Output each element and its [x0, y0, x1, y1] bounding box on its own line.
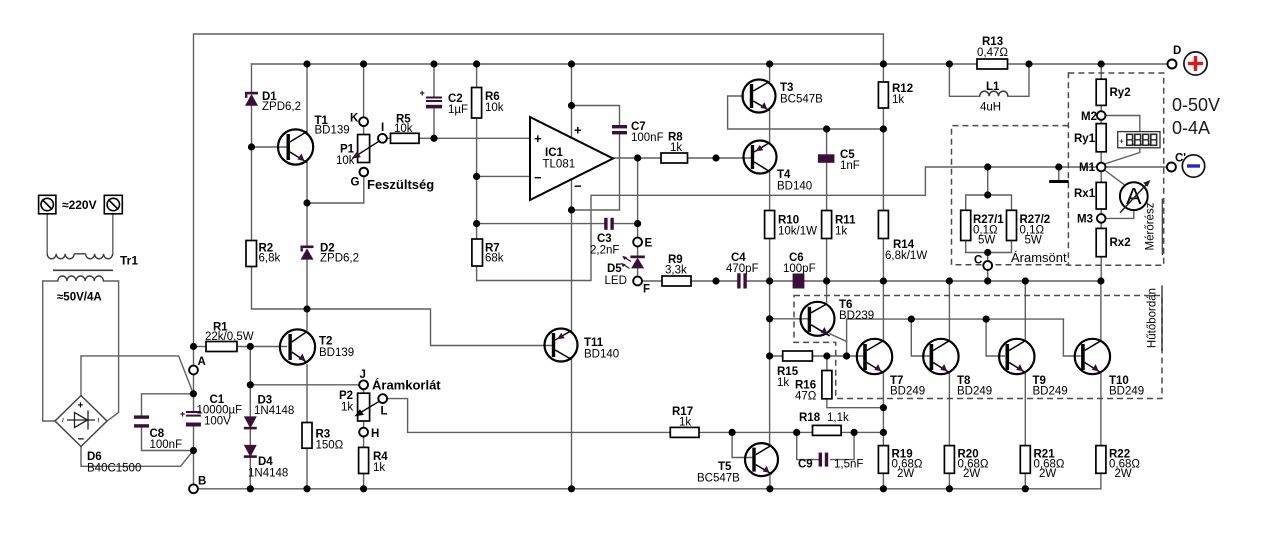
svg-text:T4: T4 [777, 169, 791, 181]
svg-text:L1: L1 [986, 81, 1000, 93]
svg-text:470pF: 470pF [726, 263, 759, 275]
svg-text:+: + [420, 88, 425, 98]
junction at 476.6,64 [473, 60, 480, 67]
dashed box Meroresz metering [1068, 73, 1163, 265]
capacitor C9 [819, 453, 829, 467]
wire shunt bottom to C terminal [966, 241, 1012, 262]
svg-text:T11: T11 [584, 337, 604, 349]
svg-text:C3: C3 [597, 233, 612, 245]
transistor T8 [923, 339, 958, 374]
svg-text:ZPD6,2: ZPD6,2 [262, 101, 301, 113]
wire T2 collector net to T11 base [307, 309, 553, 346]
svg-text:−: − [534, 170, 542, 185]
terminal J [359, 380, 368, 389]
svg-text:≈220V: ≈220V [62, 198, 97, 212]
wire M2 to display [1106, 116, 1140, 132]
svg-text:Áramkorlát: Áramkorlát [372, 378, 441, 393]
wire secondary right lead to bridge [103, 281, 118, 421]
zener diode D1 [245, 92, 258, 106]
bridge D6 internal diode symbol [67, 411, 95, 430]
svg-text:TL081: TL081 [543, 159, 576, 171]
svg-text:A: A [1126, 183, 1142, 209]
wire T8 base drop [911, 319, 929, 356]
wire op-amp -input [477, 175, 530, 177]
capacitor C5 [818, 154, 835, 163]
svg-text:1k: 1k [835, 226, 847, 238]
wire T5 base drop [732, 432, 753, 457]
wire T8 emitter [948, 373, 950, 446]
svg-text:+: + [180, 409, 185, 419]
wire T4 collector to R10 [769, 171, 771, 211]
wire T9 collector [1024, 281, 1026, 340]
wire left screw terminal to primary [46, 214, 48, 254]
svg-text:1µF: 1µF [448, 104, 468, 116]
svg-text:R18: R18 [799, 412, 821, 424]
wire T1 collector [306, 64, 308, 132]
diode D4 [244, 445, 257, 458]
svg-text:Tr1: Tr1 [120, 254, 138, 268]
resistor R7 [472, 239, 483, 266]
capacitor C3 [604, 218, 614, 230]
transistor T9 [999, 339, 1034, 374]
wire op-amp output to R8 [613, 157, 661, 159]
wire R11 bottom [826, 239, 828, 282]
resistor R8 [661, 153, 688, 163]
wire T1 emitter to D2 and P1-G [307, 162, 364, 246]
wire R22 bottom [1100, 473, 1102, 489]
wire secondary left lead to bridge [43, 281, 58, 421]
junction at 193.4,450.5 [190, 447, 197, 454]
svg-text:Rx1: Rx1 [1074, 188, 1096, 200]
wire output branch down to C3 and E [637, 158, 639, 238]
svg-text:BC547B: BC547B [697, 473, 740, 485]
resistor Ry1 [1096, 124, 1106, 152]
wire node A column capacitor section [193, 374, 195, 484]
resistor R2 [246, 241, 257, 267]
junction at 854.1,432.4 [851, 429, 858, 436]
wire R10 bottom [769, 239, 771, 282]
transformer Tr1 primary winding [47, 254, 112, 259]
wire C2 column [433, 64, 435, 138]
op-amp IC1 [530, 117, 613, 200]
terminal E [633, 238, 642, 247]
svg-text:10k: 10k [336, 155, 355, 167]
junction at 637.6,158 [634, 154, 641, 161]
svg-text:6,8k/1W: 6,8k/1W [885, 250, 927, 262]
wire P1 top K to rail [363, 64, 365, 117]
zener diode D2 [301, 246, 314, 260]
svg-text:4uH: 4uH [980, 102, 1001, 114]
resistor R16 [822, 371, 832, 399]
junction at 571.5,488.8 [568, 485, 575, 492]
wire Ry2 to M2 [1100, 105, 1102, 111]
junction at 250.3,384.8 [247, 381, 254, 388]
wire T5 collector [769, 445, 771, 446]
wire top feed from node A column to main rail [194, 34, 884, 347]
junction at 769.6,356 [766, 352, 773, 359]
bridge rectifier D6 diamond [55, 396, 107, 447]
wire M1 to ammeter diagonal [1105, 170, 1127, 186]
svg-text:+: + [534, 131, 542, 146]
wire right screw terminal to primary [112, 214, 114, 254]
wire R20 bottom [948, 473, 950, 489]
junction at 796.7,432.4 [793, 429, 800, 436]
svg-text:1k: 1k [341, 402, 353, 414]
wire Rx2 bottom to collector line [1100, 257, 1102, 281]
wire M3 to ammeter [1106, 210, 1134, 219]
terminal H [359, 428, 368, 437]
svg-text:BD249: BD249 [957, 386, 992, 398]
svg-text:68k: 68k [485, 253, 504, 265]
svg-text:1nF: 1nF [840, 160, 860, 172]
svg-text:Ry2: Ry2 [1110, 87, 1131, 99]
inductor L1 [980, 91, 1008, 96]
svg-text:10k: 10k [394, 123, 413, 135]
dashed box Aramsont shunt [952, 126, 1069, 265]
svg-text:+: + [574, 123, 582, 138]
junction at 769.6,318.8 [766, 315, 773, 322]
svg-text:Mérőrész: Mérőrész [1145, 202, 1157, 250]
wire R19 bottom [882, 473, 884, 489]
svg-text:T5: T5 [718, 461, 732, 473]
transformer Tr1 core [53, 269, 113, 271]
svg-text:BD139: BD139 [315, 125, 350, 137]
svg-text:BD249: BD249 [890, 386, 925, 398]
resistor R18 [813, 425, 842, 435]
svg-text:K: K [350, 113, 359, 125]
wire P1 K to box [363, 126, 365, 135]
wire D1-R2 column [252, 64, 308, 309]
junction at 571.5,210 [568, 206, 575, 213]
junction at 1101.2,64 [1098, 60, 1105, 67]
LED D5 arrows [621, 256, 631, 269]
wire T8 collector [948, 281, 950, 340]
resistor R20 [944, 446, 954, 474]
terminal D [1168, 60, 1177, 69]
wire R3 bottom [306, 448, 308, 489]
svg-text:BD140: BD140 [777, 181, 812, 193]
svg-text:Feszültség: Feszültség [367, 177, 434, 192]
wire R1 left to node A column [194, 346, 207, 348]
svg-text:P1: P1 [340, 144, 355, 156]
junction at 363.6,488.8 [360, 485, 367, 492]
svg-text:BD139: BD139 [319, 347, 354, 359]
svg-text:L: L [381, 406, 388, 418]
COMP_START [190, 60, 1105, 492]
svg-text:150Ω: 150Ω [316, 440, 344, 452]
output plus symbol [1184, 52, 1207, 75]
svg-text:P2: P2 [339, 390, 353, 402]
svg-text:1,1k: 1,1k [827, 412, 849, 424]
svg-text:C9: C9 [798, 459, 813, 471]
junction at 987.7,167 [984, 163, 991, 170]
svg-text:D4: D4 [258, 456, 273, 468]
transistor T3 [743, 80, 776, 113]
junction at 949.4,281 [946, 277, 953, 284]
digital display [1118, 132, 1160, 148]
svg-text:100nF: 100nF [631, 132, 664, 144]
svg-text:100V: 100V [204, 416, 231, 428]
junction at 434,64 [430, 60, 437, 67]
junction at 434,138.3 [430, 135, 437, 142]
terminal M3 [1097, 214, 1106, 223]
svg-text:B40C1500: B40C1500 [87, 463, 141, 475]
svg-text:100nF: 100nF [150, 439, 183, 451]
wire R16 top [826, 356, 828, 371]
svg-text:F: F [643, 284, 650, 296]
resistor R9 [662, 276, 691, 286]
wire R21 bottom [1024, 473, 1026, 489]
svg-text:M3: M3 [1077, 214, 1093, 226]
wire E to D5 [637, 246, 639, 256]
junction at 883.4,129 [880, 125, 887, 132]
wire C5 column [826, 129, 828, 211]
svg-text:3,3k: 3,3k [665, 265, 687, 277]
LED D5 [630, 256, 644, 269]
resistor R17 [670, 427, 699, 437]
wire C terminal to collector line [987, 270, 989, 281]
wire node A to A terminal [193, 347, 195, 366]
svg-text:~: ~ [58, 418, 68, 423]
wire T3 collector to rail [769, 64, 771, 81]
transistor T11 [545, 329, 578, 362]
svg-text:100pF: 100pF [783, 263, 816, 275]
svg-text:2W: 2W [1115, 468, 1132, 480]
resistor R22 [1096, 446, 1106, 474]
wire R5 to op-amp +input [419, 137, 530, 139]
junction at 716,281 [712, 277, 719, 284]
svg-text:+: + [78, 401, 84, 412]
junction at 826.6,281 [823, 277, 830, 284]
svg-text:6,8k: 6,8k [259, 253, 281, 265]
resistor Rx2 [1096, 228, 1106, 256]
wire IC1 V+ pin [571, 64, 573, 137]
wire Ry2 top [1100, 64, 1102, 79]
svg-text:Hűtőbordán: Hűtőbordán [1147, 288, 1159, 348]
wire R12 to R14 [882, 108, 884, 211]
wire bottom ground rail [198, 488, 1101, 490]
resistor R11 [822, 211, 832, 239]
wire bridge minus output to node B [81, 447, 193, 467]
wire R12 top [882, 64, 884, 82]
svg-text:−: − [78, 434, 84, 446]
wire collector line with C4 C6 [642, 280, 1101, 282]
svg-text:T2: T2 [319, 336, 332, 348]
wire IC1 V- pin down to T11 emitter [571, 179, 573, 333]
wire C9 bypass loop [797, 432, 854, 459]
junction at 987.7,195 [984, 191, 991, 198]
wire P2 to H [363, 421, 365, 428]
svg-text:1,5nF: 1,5nF [834, 459, 863, 471]
junction at 251.5,147 [248, 143, 255, 150]
junction at 476.6,176.4 [473, 173, 480, 180]
svg-text:BD239: BD239 [839, 310, 874, 322]
wire T7 collector [882, 281, 884, 340]
terminal C [983, 261, 992, 270]
junction at 307,488.8 [303, 485, 310, 492]
svg-text:2W: 2W [1039, 468, 1056, 480]
junction at 883.4,281 [880, 277, 887, 284]
ammeter [1120, 180, 1151, 213]
junction at 307,309 [303, 305, 310, 312]
svg-text:BD140: BD140 [584, 349, 619, 361]
wire C8 parallel connection [142, 394, 194, 451]
terminal B [189, 484, 198, 493]
capacitor C8 [134, 415, 149, 427]
resistor Rx1 [1096, 182, 1106, 209]
svg-text:5W: 5W [978, 235, 995, 247]
svg-text:G: G [351, 177, 360, 189]
transistor T4 [744, 141, 777, 174]
junction at 571.5,64 [568, 60, 575, 67]
svg-text:BD249: BD249 [1109, 386, 1144, 398]
resistor Ry2 [1096, 79, 1106, 105]
svg-text:1k: 1k [892, 94, 904, 106]
junction at 1025.3,488.8 [1022, 485, 1029, 492]
svg-text:B: B [198, 476, 206, 488]
resistor R15 [783, 351, 813, 361]
wire ground stub [1058, 167, 1060, 181]
wire D2 to T2 collector [306, 260, 308, 330]
svg-text:5W: 5W [1025, 235, 1042, 247]
svg-text:Ry1: Ry1 [1074, 133, 1096, 145]
wire J line [250, 384, 359, 386]
resistor R27/2 [1007, 210, 1017, 240]
wire T10 emitter [1100, 373, 1102, 446]
wire D3 D4 column [249, 347, 251, 489]
svg-text:2W: 2W [963, 468, 980, 480]
junction at 307,203 [303, 199, 310, 206]
junction at 1100.9,281 [1097, 277, 1104, 284]
wire M1 to Rx1 [1100, 171, 1102, 182]
svg-text:I: I [381, 122, 384, 134]
transistor T1 [278, 129, 313, 164]
terminal A [189, 366, 198, 375]
svg-text:≈50V/4A: ≈50V/4A [57, 292, 102, 304]
wire Ry1 to M1 [1100, 152, 1102, 163]
wire T6 collector [826, 281, 828, 303]
junction at 250.3,346.5 [247, 343, 254, 350]
capacitor C1 electrolytic [180, 409, 201, 427]
output minus symbol [1182, 155, 1204, 177]
svg-text:H: H [371, 428, 379, 440]
wire T11 collector to ground rail [571, 358, 573, 489]
junction at 193.4,393.8 [190, 390, 197, 397]
junction at 1058.8,167 [1055, 163, 1062, 170]
svg-text:~: ~ [94, 418, 104, 423]
resistor R27/1 [961, 210, 971, 240]
terminal C' [1167, 163, 1176, 172]
terminal F [633, 277, 642, 286]
junction at 307,64 [303, 60, 310, 67]
junction at 987.7,252.5 [984, 249, 991, 256]
svg-text:1N4148: 1N4148 [248, 468, 288, 480]
wire R15 row T7 base [770, 355, 863, 357]
svg-text:M1: M1 [1079, 162, 1096, 174]
svg-text:10k/1W: 10k/1W [778, 226, 817, 238]
capacitor C7 [612, 125, 627, 134]
wire R16 bottom jog to T7 emitter [827, 399, 884, 408]
wire T6 base [770, 281, 808, 445]
svg-text:1k: 1k [670, 142, 682, 154]
wire shunt top [966, 167, 1012, 210]
svg-text:E: E [645, 238, 653, 250]
wire D5 to F [637, 269, 639, 277]
resistor R10 [765, 211, 775, 239]
svg-text:A: A [198, 356, 206, 368]
wire T5 emitter [769, 473, 771, 489]
wire P1 wiper I to R5 [387, 137, 391, 139]
svg-text:T3: T3 [780, 82, 793, 94]
wire R6 column from rail through to -input and R7 [476, 64, 478, 239]
svg-text:ZPD6,2: ZPD6,2 [320, 253, 359, 265]
svg-text:1k: 1k [777, 377, 789, 389]
resistor R12 [878, 82, 888, 108]
junction at 911.3,319.1 [908, 316, 915, 323]
svg-text:D6: D6 [87, 451, 102, 463]
svg-text:0-4A: 0-4A [1172, 118, 1210, 138]
wire M3 to Rx2 [1100, 223, 1102, 229]
wire bridge plus output to node A [81, 356, 193, 396]
transistor T7 [857, 339, 892, 374]
svg-text:−: − [574, 179, 582, 194]
wire C3 line [477, 223, 638, 225]
junction at 637.6,223.6 [634, 220, 641, 227]
potentiometer P2 [355, 393, 388, 421]
junction at 769.6,281 [766, 277, 773, 284]
wire R8 to T4 base [688, 157, 753, 159]
resistor R6 [472, 88, 482, 119]
svg-text:D5: D5 [607, 263, 622, 275]
wire R7 bottom to feedback sense line [477, 167, 1167, 281]
wire P2 wiper L to T5 base line [387, 399, 670, 433]
resistor R1 [206, 342, 237, 352]
junction at 1025.3,281 [1022, 277, 1029, 284]
junction at 987.7,281 [984, 277, 991, 284]
svg-text:LED: LED [605, 275, 627, 287]
junction at 193.5,346.5 [190, 343, 197, 350]
terminal M2 [1097, 111, 1106, 120]
svg-text:BD249: BD249 [1033, 386, 1068, 398]
junction at 949.4,488.8 [946, 485, 953, 492]
wire C7 branch across supply [572, 106, 620, 211]
junction at 883.4,407.7 [880, 404, 887, 411]
resistor R19 [878, 446, 888, 474]
junction at 716,158 [712, 154, 719, 161]
junction at 986.1,319.1 [983, 316, 990, 323]
svg-text:Áramsönt: Áramsönt [1011, 250, 1067, 265]
junction at 846.6,356 [843, 352, 850, 359]
capacitor C4 [737, 273, 747, 288]
junction at 826.9,356 [823, 352, 830, 359]
diode D3 [244, 416, 257, 429]
dashed box Hutobordan heatsink [794, 296, 1162, 399]
junction at 883.4,432.4 [880, 429, 887, 436]
svg-text:0-50V: 0-50V [1172, 95, 1220, 115]
resistor R3 [302, 423, 312, 449]
capacitor C6 [793, 274, 805, 289]
ground symbol [1049, 180, 1069, 183]
wire R4 bottom [363, 474, 365, 489]
wire base bus for power transistors [847, 319, 1064, 341]
resistor R13 [977, 59, 1008, 69]
resistor R4 [359, 447, 369, 473]
wire T7 emitter through junctions to R19 [882, 373, 884, 446]
svg-text:Rx2: Rx2 [1110, 237, 1131, 249]
svg-text:10k: 10k [485, 102, 504, 114]
svg-text:1k: 1k [373, 462, 385, 474]
svg-text:1N4148: 1N4148 [254, 405, 294, 417]
